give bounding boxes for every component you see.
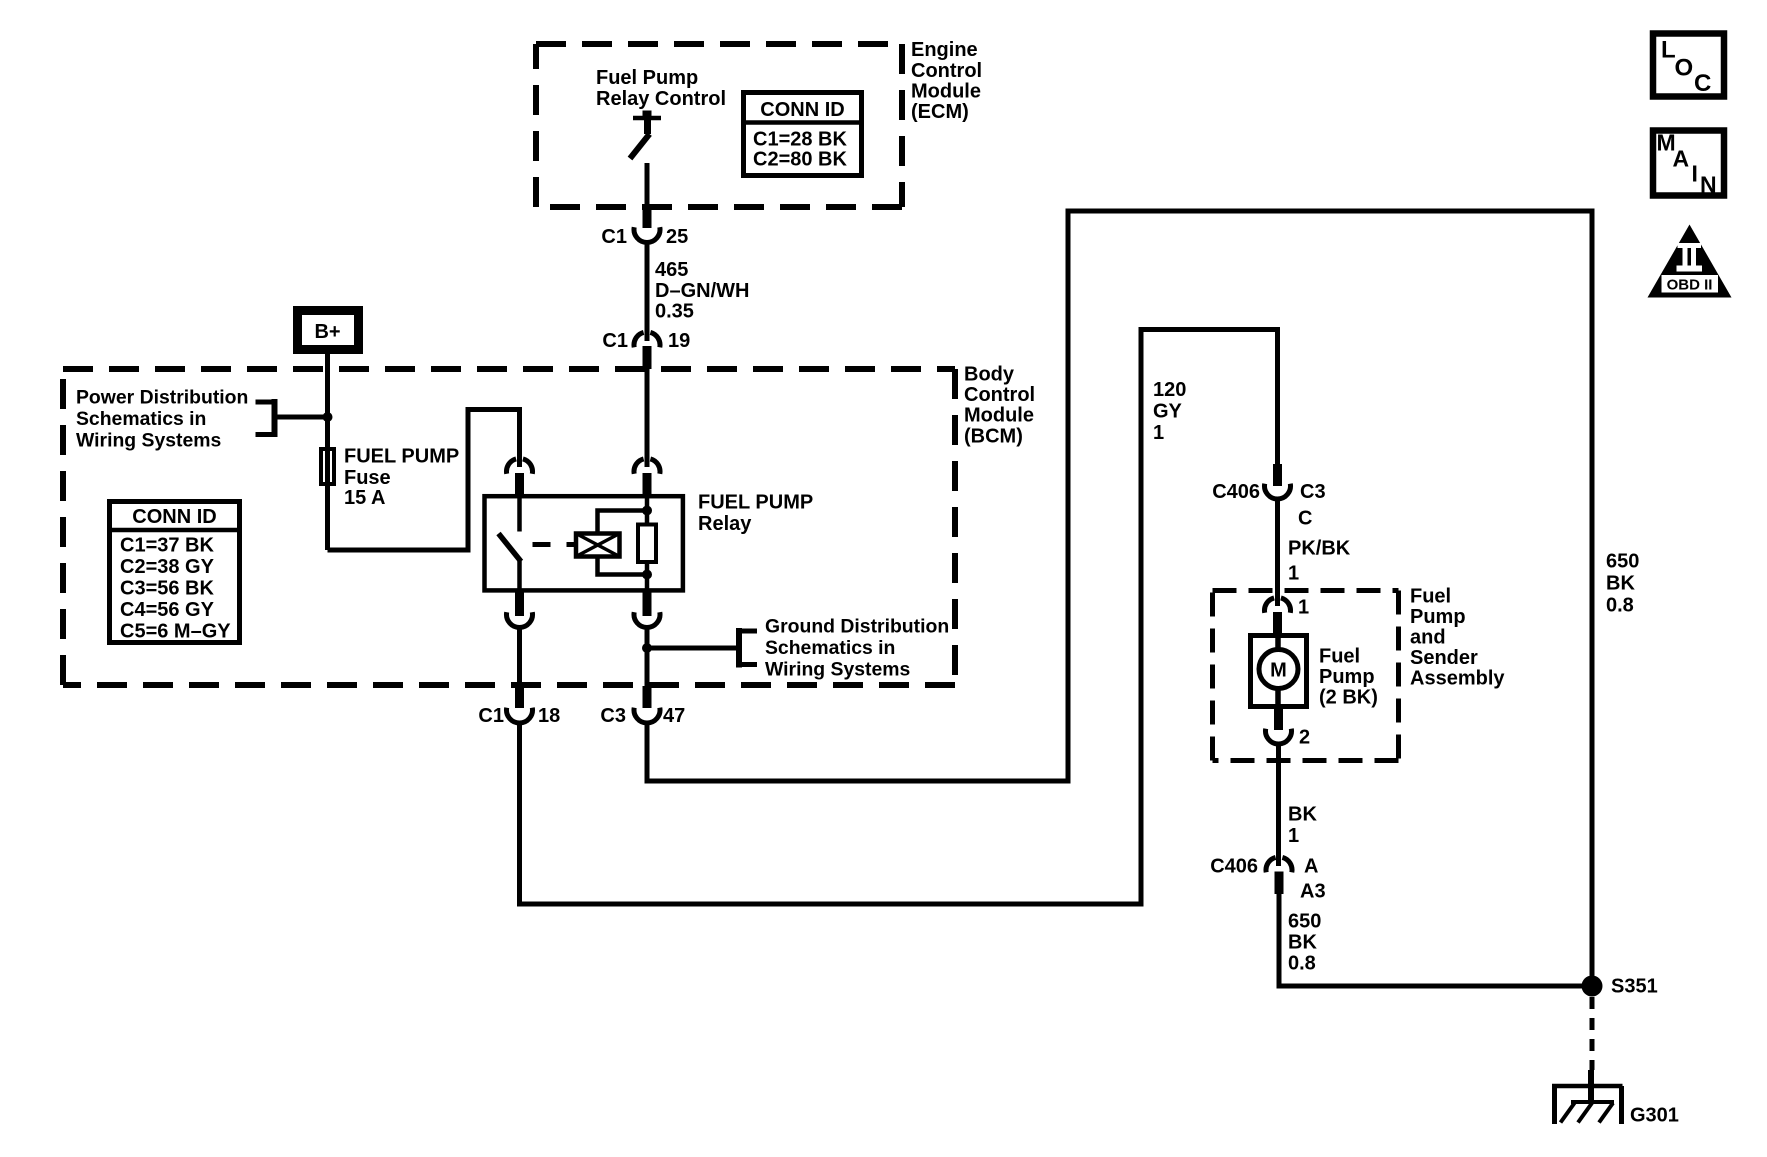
label: Power Distribution Schematics in Wiring Systems (76, 387, 248, 452)
svg-text:Power Distribution: Power Distribution (76, 387, 248, 409)
wire: tap to power distribution bracket (277, 415, 328, 420)
wire: relay internal vertical (645, 496, 650, 525)
svg-text:OBD II: OBD II (1667, 277, 1713, 294)
wire: dashed mechanical link to coil (533, 542, 577, 547)
svg-text:C3: C3 (600, 705, 626, 727)
svg-text:Body: Body (964, 364, 1015, 386)
svg-text:Control: Control (964, 384, 1035, 406)
label: FUEL PUMP Relay (698, 492, 813, 536)
wire: circuit 120 GY 1 run (C1-18 down, right, up, right, down to C406) (520, 330, 1278, 905)
table: ECM CONN ID (C1=28 BK, C2=80 BK) (741, 93, 864, 176)
svg-text:Sender: Sender (1410, 647, 1478, 669)
svg-text:BK: BK (1288, 804, 1317, 826)
wire: resistor to bottom junction (645, 562, 650, 593)
svg-text:Module: Module (964, 405, 1034, 427)
svg-text:0.8: 0.8 (1288, 953, 1316, 975)
svg-text:D–GN/WH: D–GN/WH (655, 280, 749, 302)
connector pin C1 18 (BCM bottom) (507, 686, 533, 723)
svg-text:(ECM): (ECM) (911, 101, 969, 123)
svg-text:BK: BK (1606, 573, 1635, 595)
label: FUEL PUMP Fuse 15 A (344, 446, 459, 510)
label: 650 BK 0.8 (right side) (1606, 551, 1639, 617)
module box: Fuel Pump and Sender Assembly dashed outline (1213, 591, 1399, 761)
connector pin 2 (fuel pump) (1266, 708, 1292, 744)
svg-text:C4=56 GY: C4=56 GY (120, 599, 215, 621)
wire: relay bottom-right to BCM edge (645, 629, 650, 689)
wire: C1 19 to relay terminal top-right (645, 369, 650, 467)
wire: fuse to relay pin 86 (down, right, up, right) (328, 410, 520, 551)
svg-text:FUEL PUMP: FUEL PUMP (344, 446, 459, 468)
svg-text:Fuel: Fuel (1319, 646, 1360, 668)
svg-text:Ground Distribution: Ground Distribution (765, 616, 949, 638)
svg-text:C5=6 M–GY: C5=6 M–GY (120, 621, 231, 643)
svg-text:C1: C1 (601, 226, 627, 248)
svg-text:C2=80 BK: C2=80 BK (753, 149, 847, 171)
svg-text:Pump: Pump (1319, 666, 1375, 688)
label: Body Control Module (BCM) (964, 364, 1035, 448)
svg-text:FUEL PUMP: FUEL PUMP (698, 492, 813, 514)
connector pin: relay terminal bottom-left (86 side) (507, 593, 533, 628)
svg-text:A3: A3 (1300, 881, 1326, 903)
svg-text:C1: C1 (602, 330, 628, 352)
wire: ground run 650 (C3-47 down, right, up, right, down to S351) (647, 211, 1592, 986)
power symbol B+ (298, 311, 359, 350)
ground G301 (1552, 1070, 1623, 1124)
bracket: Power Distribution Schematics reference (256, 399, 275, 437)
svg-text:C: C (1298, 508, 1312, 530)
svg-text:650: 650 (1606, 551, 1639, 573)
svg-text:C: C (1694, 70, 1711, 97)
svg-text:Engine: Engine (911, 39, 978, 61)
svg-text:O: O (1675, 55, 1694, 82)
svg-text:2: 2 (1299, 727, 1310, 749)
label: Fuel Pump and Sender Assembly (1410, 586, 1505, 690)
svg-text:B+: B+ (314, 321, 340, 343)
svg-text:0.35: 0.35 (655, 301, 694, 323)
svg-text:Fuel: Fuel (1410, 586, 1451, 608)
svg-text:18: 18 (538, 705, 560, 727)
wire: circuit 650 BK 0.8 to splice (1279, 894, 1592, 986)
svg-text:C406: C406 (1210, 856, 1258, 878)
motor M1: fuel pump motor box (1251, 636, 1307, 707)
wire: coil top loop (598, 511, 648, 534)
wire: coil bottom loop (598, 557, 648, 575)
svg-text:S351: S351 (1611, 976, 1658, 998)
svg-text:Fuel Pump: Fuel Pump (596, 67, 698, 89)
wire: circuit 465 D-GN/WH 0.35 (645, 244, 650, 342)
node: coil/resistor top junction (642, 506, 652, 516)
svg-text:PK/BK: PK/BK (1288, 538, 1351, 560)
node: ground distribution junction (642, 643, 652, 653)
svg-text:25: 25 (666, 226, 688, 248)
svg-text:Assembly: Assembly (1410, 668, 1505, 690)
svg-text:C406: C406 (1212, 481, 1260, 503)
svg-text:Pump: Pump (1410, 606, 1466, 628)
connector pin C1 19 (BCM) (634, 332, 660, 369)
wire: relay bottom-left to BCM edge (517, 629, 522, 689)
wire: junction to ground distribution bracket (647, 646, 736, 651)
svg-text:15 A: 15 A (344, 487, 386, 509)
svg-text:C3: C3 (1300, 481, 1326, 503)
connector C406 pin A/A3 (pump return) (1266, 857, 1292, 894)
motor circle M (1259, 650, 1298, 689)
svg-text:N: N (1700, 172, 1717, 198)
wire: ECM driver to pin 25 (645, 163, 650, 207)
svg-text:C1=37 BK: C1=37 BK (120, 535, 214, 557)
svg-text:G301: G301 (1630, 1105, 1679, 1127)
resistor R1: relay shunt resistor (638, 525, 656, 563)
node: coil/resistor bottom junction (642, 570, 652, 580)
icon: MAIN box (1653, 131, 1724, 196)
fuse F1: FUEL PUMP Fuse 15 A (321, 449, 334, 484)
label: Fuel Pump Relay Control (596, 67, 726, 110)
wire: pump box internal bottom (1275, 687, 1281, 708)
svg-text:CONN ID: CONN ID (132, 506, 216, 528)
bracket: Ground Distribution Schematics reference (739, 628, 757, 668)
icon: OBD II triangle (1648, 225, 1732, 298)
svg-text:I: I (1692, 161, 1698, 187)
connector pin C1 25 (ECM) (634, 205, 660, 242)
connector pin C3 47 (BCM bottom) (634, 686, 660, 723)
svg-text:Wiring Systems: Wiring Systems (765, 659, 910, 681)
switch SW1: fuel pump relay control driver inside ECM (630, 111, 661, 159)
svg-text:Relay Control: Relay Control (596, 88, 726, 110)
svg-text:19: 19 (668, 330, 690, 352)
svg-text:Fuse: Fuse (344, 467, 391, 489)
svg-text:1: 1 (1298, 597, 1309, 619)
relay K1: FUEL PUMP Relay box (485, 496, 683, 590)
label: Ground Distribution Schematics in Wiring Systems (765, 616, 949, 681)
module box U1: Engine Control Module (ECM) dashed outline (536, 44, 902, 207)
svg-text:BK: BK (1288, 932, 1317, 954)
wire: dashed splice to ground (1590, 997, 1595, 1070)
connector pin: relay terminal top-right (634, 459, 660, 496)
svg-text:C1=28 BK: C1=28 BK (753, 129, 847, 151)
svg-text:and: and (1410, 627, 1446, 649)
svg-text:(BCM): (BCM) (964, 426, 1023, 448)
svg-text:GY: GY (1153, 401, 1183, 423)
svg-text:C1: C1 (478, 705, 504, 727)
svg-text:47: 47 (663, 705, 685, 727)
svg-text:650: 650 (1288, 911, 1321, 933)
svg-text:Relay: Relay (698, 513, 752, 535)
connector pin 1 (fuel pump) (1264, 598, 1290, 634)
wire: B+ feed down through fuse (325, 354, 330, 550)
icon: LOC locator box (1653, 34, 1724, 97)
svg-text:C3=56 BK: C3=56 BK (120, 578, 214, 600)
svg-text:A: A (1673, 146, 1690, 172)
label: 120 GY 1 (1153, 379, 1186, 444)
svg-text:C2=38 GY: C2=38 GY (120, 556, 215, 578)
switch: relay contact arm (499, 494, 522, 593)
table: BCM CONN ID (C1..C5) (107, 502, 242, 643)
svg-text:1: 1 (1288, 825, 1299, 847)
connector C406 pin C3/C (fuel pump feed) (1265, 464, 1291, 499)
wire: pump box internal top (1275, 635, 1281, 651)
svg-text:A: A (1304, 856, 1318, 878)
svg-text:Schematics in: Schematics in (765, 637, 895, 659)
connector pin: relay terminal bottom-right (85 side) (634, 593, 660, 628)
label: Engine Control Module (ECM) (911, 39, 982, 123)
svg-text:465: 465 (655, 259, 688, 281)
node: junction of power distribution tap (323, 412, 333, 422)
coil L1: relay coil (crossed box) (576, 534, 620, 557)
wire: circuit PK/BK 1 to fuel pump (1275, 498, 1280, 606)
svg-text:M: M (1270, 660, 1287, 682)
svg-text:(2 BK): (2 BK) (1319, 687, 1378, 709)
wire: pump return BK 1 (1276, 743, 1281, 867)
svg-text:Module: Module (911, 81, 981, 103)
svg-text:CONN ID: CONN ID (760, 99, 844, 121)
connector pin: relay terminal top-left (506, 459, 532, 496)
svg-text:L: L (1661, 37, 1676, 64)
svg-text:1: 1 (1288, 563, 1299, 585)
svg-text:0.8: 0.8 (1606, 595, 1634, 617)
svg-text:Schematics in: Schematics in (76, 408, 206, 430)
module box U2: Body Control Module (BCM) dashed outline (63, 369, 955, 685)
svg-text:120: 120 (1153, 379, 1186, 401)
label: Fuel Pump (2 BK) (1319, 646, 1378, 709)
svg-text:1: 1 (1153, 422, 1164, 444)
svg-text:Wiring Systems: Wiring Systems (76, 430, 221, 452)
svg-text:Control: Control (911, 60, 982, 82)
node S351: splice (1582, 976, 1603, 997)
